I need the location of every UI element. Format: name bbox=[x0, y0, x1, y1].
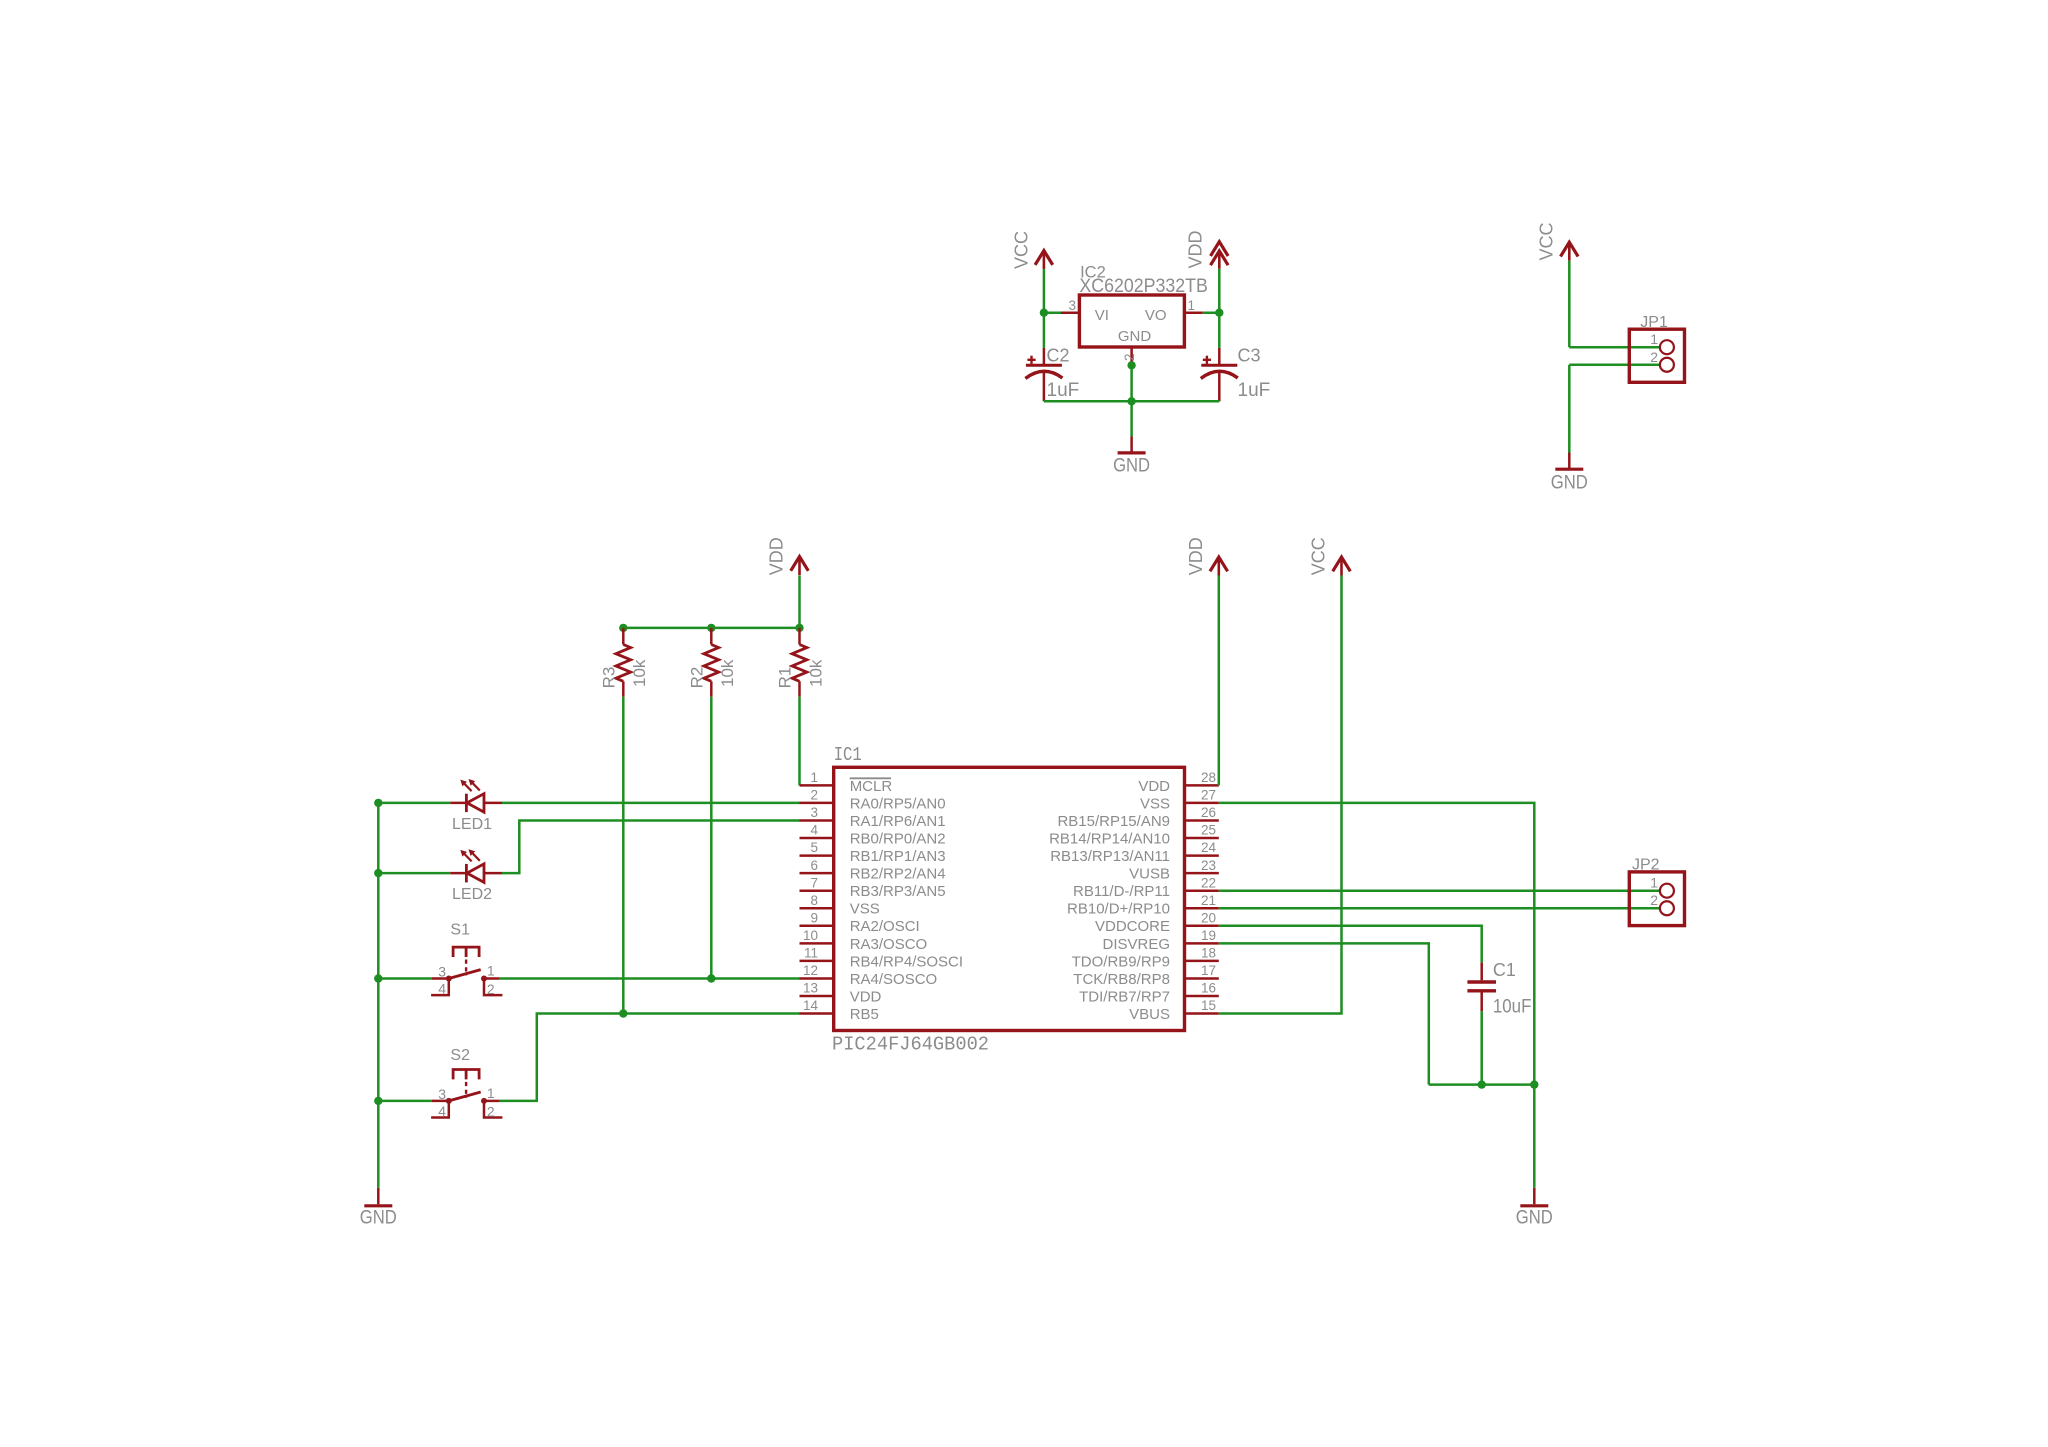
ground stub (JP1) bbox=[1568, 453, 1571, 470]
svg-text:2: 2 bbox=[1650, 892, 1658, 908]
IC1 pin 20 stub bbox=[1185, 925, 1219, 928]
svg-text:VCC: VCC bbox=[1536, 222, 1556, 260]
svg-text:IC1: IC1 bbox=[834, 744, 862, 766]
svg-text:RB11/D-/RP11: RB11/D-/RP11 bbox=[1073, 883, 1170, 900]
junction C1/bottom bus bbox=[1478, 1080, 1486, 1088]
svg-text:21: 21 bbox=[1201, 893, 1216, 908]
svg-text:4: 4 bbox=[810, 823, 818, 838]
IC1 pin 11 stub bbox=[800, 960, 834, 963]
svg-text:RA4/SOSCO: RA4/SOSCO bbox=[850, 971, 938, 988]
svg-text:1uF: 1uF bbox=[1047, 380, 1080, 401]
IC1 pin 21 stub bbox=[1185, 907, 1219, 910]
ground stub (bottom right) bbox=[1533, 1188, 1536, 1205]
wire node to IC2 pin 3 bbox=[1044, 311, 1061, 314]
svg-text:VDDCORE: VDDCORE bbox=[1095, 918, 1170, 935]
svg-text:22: 22 bbox=[1201, 875, 1216, 890]
svg-text:RA0/RP5/AN0: RA0/RP5/AN0 bbox=[850, 795, 946, 812]
svg-text:2: 2 bbox=[487, 1103, 495, 1119]
svg-text:S2: S2 bbox=[450, 1047, 470, 1064]
svg-text:4: 4 bbox=[438, 981, 446, 997]
svg-text:1: 1 bbox=[810, 770, 818, 785]
IC1 pin 15 stub bbox=[1185, 1012, 1219, 1015]
svg-text:10k: 10k bbox=[630, 659, 649, 687]
svg-text:2: 2 bbox=[487, 981, 495, 997]
IC1 pin 6 stub bbox=[800, 872, 834, 875]
svg-text:VSS: VSS bbox=[850, 901, 880, 918]
LED2 cathode stub bbox=[484, 872, 502, 875]
node junction bus/GND bbox=[1127, 397, 1135, 405]
svg-text:26: 26 bbox=[1201, 805, 1216, 820]
svg-text:3: 3 bbox=[438, 1086, 446, 1102]
svg-text:VDD: VDD bbox=[1186, 230, 1206, 268]
svg-text:25: 25 bbox=[1201, 823, 1216, 838]
svg-text:1: 1 bbox=[1650, 331, 1658, 347]
svg-text:1: 1 bbox=[1650, 875, 1658, 891]
svg-text:VDD: VDD bbox=[767, 537, 787, 575]
svg-text:18: 18 bbox=[1201, 946, 1216, 961]
svg-text:10k: 10k bbox=[806, 659, 825, 687]
junction bus/LED2 bbox=[374, 869, 382, 877]
svg-text:2: 2 bbox=[1122, 353, 1137, 361]
IC1 pin 8 stub bbox=[800, 907, 834, 910]
svg-text:2: 2 bbox=[1650, 349, 1658, 365]
svg-text:GND: GND bbox=[360, 1208, 397, 1229]
IC1 pin 26 stub bbox=[1185, 819, 1219, 822]
svg-text:RB5: RB5 bbox=[850, 1006, 879, 1023]
IC1 pin 3 stub bbox=[800, 819, 834, 822]
IC1 pin 18 stub bbox=[1185, 960, 1219, 963]
svg-text:10: 10 bbox=[803, 928, 818, 943]
svg-text:JP2: JP2 bbox=[1632, 857, 1660, 874]
svg-text:16: 16 bbox=[1201, 981, 1216, 996]
pin header JP1 box bbox=[1629, 329, 1684, 382]
capacitor C2 (polarized 1uF) bbox=[1043, 313, 1046, 348]
voltage regulator IC2 XC6202P332TB box bbox=[1079, 295, 1184, 347]
svg-text:VSS: VSS bbox=[1140, 795, 1170, 812]
svg-text:17: 17 bbox=[1201, 963, 1216, 978]
svg-text:TDO/RB9/RP9: TDO/RB9/RP9 bbox=[1072, 953, 1170, 970]
junction R2 top bbox=[707, 624, 715, 632]
svg-text:MCLR: MCLR bbox=[850, 778, 893, 795]
ground symbol GND (regulator) bbox=[1118, 451, 1146, 454]
junction bus/S2 bbox=[374, 1097, 382, 1105]
svg-text:RB4/RP4/SOSCI: RB4/RP4/SOSCI bbox=[850, 953, 963, 970]
resistor R3 10k bbox=[622, 628, 625, 645]
svg-text:VUSB: VUSB bbox=[1129, 866, 1170, 883]
svg-text:11: 11 bbox=[804, 946, 818, 961]
IC1 pin 19 stub bbox=[1185, 942, 1219, 945]
MCLR overline bbox=[850, 777, 891, 779]
wire IC2 GND down to bus bbox=[1130, 365, 1133, 401]
svg-text:RA2/OSCI: RA2/OSCI bbox=[850, 918, 920, 935]
svg-text:2: 2 bbox=[810, 788, 818, 803]
wire bus to LED1 bbox=[378, 802, 450, 805]
svg-text:19: 19 bbox=[1201, 928, 1216, 943]
svg-text:13: 13 bbox=[803, 981, 818, 996]
svg-text:RB13/RP13/AN11: RB13/RP13/AN11 bbox=[1050, 848, 1170, 865]
svg-text:RB15/RP15/AN9: RB15/RP15/AN9 bbox=[1057, 813, 1170, 830]
wire bus to S2 bbox=[378, 1100, 431, 1103]
IC1 pin 4 stub bbox=[800, 837, 834, 840]
ground symbol GND (bottom right) bbox=[1520, 1204, 1548, 1207]
resistor R2 10k bbox=[710, 628, 713, 645]
svg-text:1: 1 bbox=[487, 963, 495, 979]
diode LED2 bbox=[465, 864, 468, 883]
svg-text:VDD: VDD bbox=[1138, 778, 1170, 795]
wire left vertical bus bbox=[377, 803, 380, 1188]
wire VDD to pin 28 bbox=[1218, 576, 1221, 786]
wire pin 22 to JP2 pin 1 bbox=[1219, 889, 1660, 892]
svg-text:LED2: LED2 bbox=[452, 886, 492, 903]
wire VCC to pin 15 bbox=[1219, 576, 1342, 1014]
IC1 pin 7 stub bbox=[800, 889, 834, 892]
svg-text:C2: C2 bbox=[1047, 346, 1070, 366]
svg-text:GND: GND bbox=[1516, 1208, 1553, 1229]
wire pin 21 to JP2 pin 2 bbox=[1219, 907, 1660, 910]
svg-text:DISVREG: DISVREG bbox=[1102, 936, 1170, 953]
wire bus to LED2 bbox=[378, 872, 450, 875]
S2 pin 1 stub bbox=[484, 1100, 500, 1103]
svg-text:3: 3 bbox=[438, 964, 446, 980]
svg-text:RB14/RP14/AN10: RB14/RP14/AN10 bbox=[1049, 830, 1170, 847]
IC1 pin 2 stub bbox=[800, 802, 834, 805]
wire ground bus under regulator bbox=[1044, 400, 1219, 403]
JP1 pin 1 circle bbox=[1660, 340, 1674, 354]
junction R3 top bbox=[619, 624, 627, 632]
pin 3 stub of IC2 bbox=[1061, 311, 1079, 314]
microcontroller IC1 box bbox=[834, 767, 1185, 1030]
svg-text:VBUS: VBUS bbox=[1129, 1006, 1170, 1023]
svg-text:R3: R3 bbox=[599, 667, 618, 689]
node dot below IC2 GND pin bbox=[1127, 361, 1135, 369]
svg-text:PIC24FJ64GB002: PIC24FJ64GB002 bbox=[832, 1034, 989, 1056]
svg-text:C1: C1 bbox=[1493, 960, 1516, 980]
junction R2/S1 net bbox=[707, 974, 715, 982]
svg-text:1uF: 1uF bbox=[1238, 380, 1271, 401]
pin 1 stub of IC2 bbox=[1184, 311, 1202, 314]
node junction VCC/C2/IC2.VI bbox=[1040, 309, 1048, 317]
wire LED2 to IC1 pin 3 bbox=[502, 821, 800, 874]
junction VSS/bottom bus bbox=[1530, 1080, 1538, 1088]
S2 pin 3 stub bbox=[432, 1100, 449, 1103]
diode LED1 bbox=[465, 794, 468, 812]
svg-text:15: 15 bbox=[1201, 998, 1216, 1013]
svg-text:1: 1 bbox=[487, 1085, 495, 1101]
node junction VDD/C3/IC2.VO bbox=[1215, 309, 1223, 317]
wire bottom junction bus bbox=[1429, 1083, 1535, 1086]
wire top resistor bus bbox=[623, 627, 799, 630]
wire LED1 to IC1 pin 2 bbox=[502, 802, 800, 805]
svg-text:9: 9 bbox=[810, 910, 818, 925]
svg-text:VCC: VCC bbox=[1309, 537, 1329, 575]
svg-text:LED1: LED1 bbox=[452, 816, 492, 833]
svg-text:7: 7 bbox=[810, 875, 818, 890]
pin 2 stub of IC2 (GND) bbox=[1130, 347, 1133, 365]
ground stub (regulator) bbox=[1130, 437, 1133, 453]
wire bus down to GND symbol bbox=[1130, 401, 1133, 436]
IC1 pin 25 stub bbox=[1185, 837, 1219, 840]
svg-text:XC6202P332TB: XC6202P332TB bbox=[1079, 276, 1208, 297]
svg-text:GND: GND bbox=[1113, 456, 1150, 477]
wire bus to S1 bbox=[378, 977, 431, 980]
svg-text:RA1/RP6/AN1: RA1/RP6/AN1 bbox=[850, 813, 946, 830]
wire R2 to RA4 net bbox=[710, 697, 713, 979]
wire JP1 pin 2 to GND bbox=[1569, 364, 1660, 367]
pin header JP2 box bbox=[1629, 872, 1684, 926]
power symbol VCC (JP1) bbox=[1561, 242, 1579, 256]
LED1 anode stub bbox=[450, 802, 466, 805]
svg-text:5: 5 bbox=[810, 840, 818, 855]
switch S1 bbox=[446, 976, 452, 982]
capacitor C1 10uF bbox=[1480, 963, 1483, 981]
svg-text:VDD: VDD bbox=[1186, 537, 1206, 575]
svg-text:8: 8 bbox=[810, 893, 818, 908]
wire S1 to IC1 pin 12 bbox=[500, 977, 800, 980]
ground symbol GND (JP1) bbox=[1555, 468, 1583, 471]
wire S2 to IC1 pin 14 bbox=[500, 1014, 800, 1101]
S1 pin 3 stub bbox=[432, 977, 449, 980]
svg-text:VDD: VDD bbox=[850, 988, 882, 1005]
svg-text:6: 6 bbox=[810, 858, 818, 873]
wire VCC down to node bbox=[1043, 269, 1046, 313]
IC1 pin 14 stub bbox=[800, 1012, 834, 1015]
svg-text:10uF: 10uF bbox=[1493, 997, 1532, 1018]
svg-text:4: 4 bbox=[438, 1103, 446, 1119]
ground symbol GND (left) bbox=[364, 1204, 392, 1207]
power symbol VDD (regulator output, double arrow) bbox=[1211, 242, 1229, 256]
IC1 pin 17 stub bbox=[1185, 977, 1219, 980]
power symbol VDD (pull-ups) bbox=[791, 557, 809, 571]
switch S2 bbox=[446, 1098, 452, 1104]
IC1 pin 23 stub bbox=[1185, 872, 1219, 875]
JP2 pin 1 circle bbox=[1660, 884, 1674, 898]
power symbol VCC (IC1 VBUS) bbox=[1333, 557, 1351, 571]
JP2 pin 2 circle bbox=[1660, 901, 1674, 915]
svg-text:TDI/RB7/RP7: TDI/RB7/RP7 bbox=[1079, 988, 1170, 1005]
IC1 pin 13 stub bbox=[800, 995, 834, 998]
svg-text:14: 14 bbox=[803, 998, 819, 1013]
IC1 pin 10 stub bbox=[800, 942, 834, 945]
wire R3 to RB5 net bbox=[622, 697, 625, 1014]
svg-text:RB1/RP1/AN3: RB1/RP1/AN3 bbox=[850, 848, 946, 865]
svg-text:RA3/OSCO: RA3/OSCO bbox=[850, 936, 928, 953]
svg-text:10k: 10k bbox=[718, 659, 737, 687]
wire IC2 pin1 to VDD node bbox=[1203, 311, 1220, 314]
JP1 pin 2 circle bbox=[1660, 358, 1674, 372]
wire VDD down to bus bbox=[798, 575, 801, 628]
svg-text:20: 20 bbox=[1201, 910, 1216, 925]
IC1 pin 24 stub bbox=[1185, 854, 1219, 857]
svg-text:S1: S1 bbox=[450, 922, 470, 939]
IC1 pin 1 stub bbox=[800, 784, 834, 787]
svg-text:GND: GND bbox=[1118, 328, 1152, 345]
svg-text:VO: VO bbox=[1145, 307, 1167, 324]
svg-text:TCK/RB8/RP8: TCK/RB8/RP8 bbox=[1073, 971, 1170, 988]
svg-text:VCC: VCC bbox=[1011, 231, 1031, 269]
svg-text:1: 1 bbox=[1188, 298, 1196, 313]
svg-text:3: 3 bbox=[810, 805, 818, 820]
resistor R1 10k bbox=[798, 628, 801, 645]
S1 pin 1 stub bbox=[484, 977, 500, 980]
svg-text:RB3/RP3/AN5: RB3/RP3/AN5 bbox=[850, 883, 946, 900]
IC1 pin 22 stub bbox=[1185, 889, 1219, 892]
svg-text:RB2/RP2/AN4: RB2/RP2/AN4 bbox=[850, 866, 946, 883]
svg-text:27: 27 bbox=[1201, 788, 1216, 803]
junction bus/S1 bbox=[374, 974, 382, 982]
svg-text:3: 3 bbox=[1068, 298, 1076, 313]
IC1 pin 12 stub bbox=[800, 977, 834, 980]
IC1 pin 28 stub bbox=[1185, 784, 1219, 787]
IC1 pin 5 stub bbox=[800, 854, 834, 857]
wire R1 to IC1 pin 1 bbox=[798, 697, 801, 786]
svg-text:R1: R1 bbox=[776, 667, 795, 689]
wire pin 19 (DISVREG) down bbox=[1219, 943, 1429, 1084]
wire VSS pin 27 to bottom right GND bbox=[1219, 803, 1535, 1188]
junction R1 top bbox=[795, 624, 803, 632]
wire VDD arrow to node bbox=[1218, 269, 1221, 313]
svg-text:JP1: JP1 bbox=[1640, 314, 1668, 331]
capacitor C3 (polarized 1uF) bbox=[1218, 313, 1221, 348]
junction R3/S2 net bbox=[619, 1009, 627, 1017]
svg-text:C3: C3 bbox=[1238, 346, 1261, 366]
svg-text:VI: VI bbox=[1095, 307, 1109, 324]
IC1 pin 27 stub bbox=[1185, 802, 1219, 805]
svg-text:28: 28 bbox=[1201, 770, 1216, 785]
wire pin 20 (VDDCORE) to C1 bbox=[1219, 926, 1482, 963]
power symbol VDD (IC1 pin 28) bbox=[1210, 557, 1228, 571]
svg-text:RB0/RP0/AN2: RB0/RP0/AN2 bbox=[850, 830, 946, 847]
ground stub (left) bbox=[377, 1188, 380, 1205]
svg-text:12: 12 bbox=[803, 963, 818, 978]
svg-text:23: 23 bbox=[1201, 858, 1216, 873]
LED2 anode stub bbox=[450, 872, 466, 875]
svg-text:24: 24 bbox=[1201, 840, 1217, 855]
power symbol VCC (regulator input) bbox=[1035, 251, 1053, 265]
junction bus/LED1 bbox=[374, 799, 382, 807]
svg-text:RB10/D+/RP10: RB10/D+/RP10 bbox=[1067, 901, 1170, 918]
svg-text:GND: GND bbox=[1551, 472, 1588, 493]
IC1 pin 16 stub bbox=[1185, 995, 1219, 998]
IC1 pin 9 stub bbox=[800, 925, 834, 928]
svg-text:R2: R2 bbox=[687, 667, 706, 689]
wire VCC down to JP1 pin 1 bbox=[1568, 261, 1571, 348]
LED1 cathode stub bbox=[484, 802, 502, 805]
